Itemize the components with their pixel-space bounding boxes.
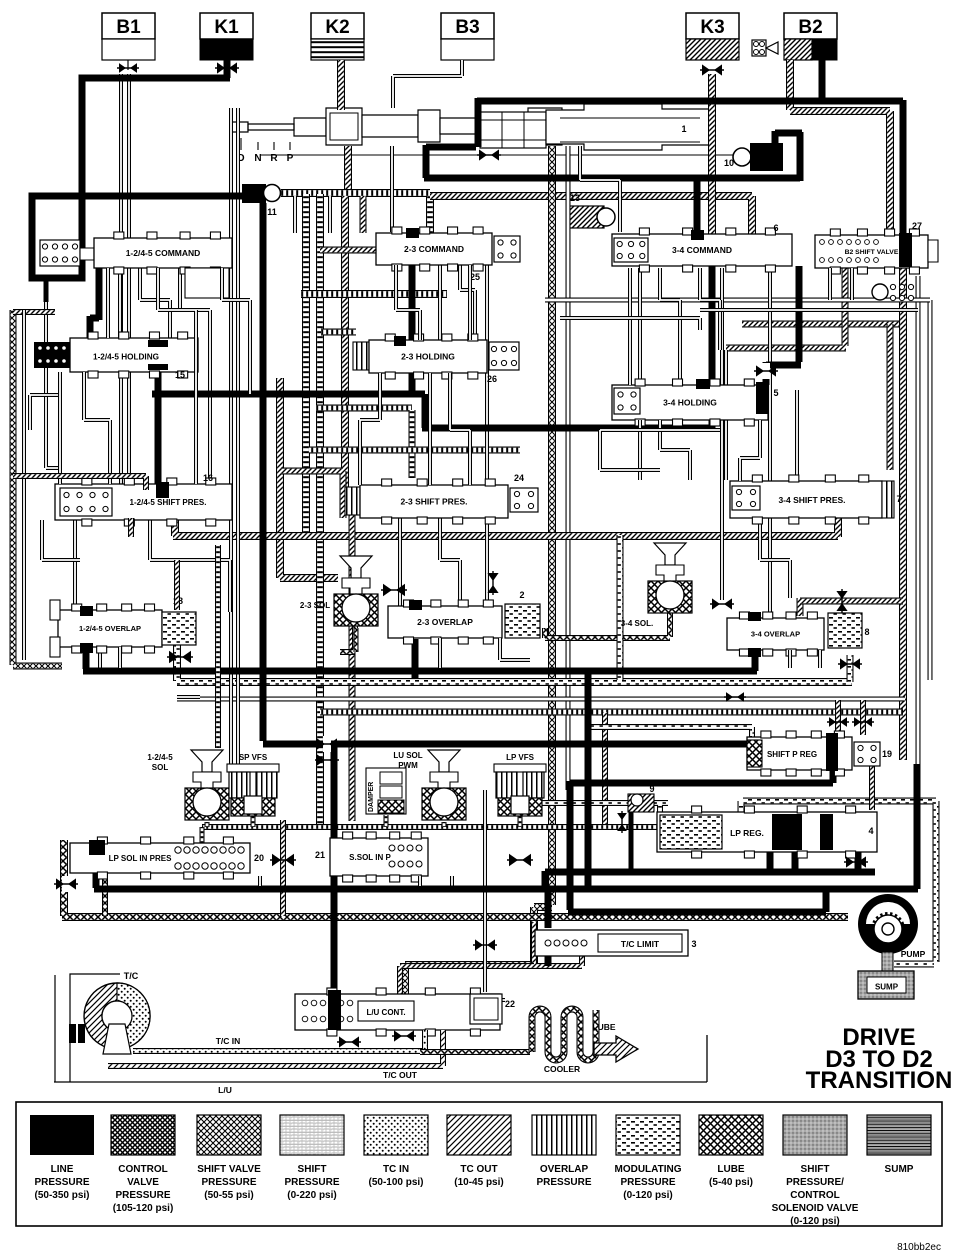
arrows above shift p reg [829,717,836,727]
S.SOL spring dots [389,845,395,851]
svg-text:2-3 OVERLAP: 2-3 OVERLAP [417,617,473,627]
wire central tall channel [405,146,552,995]
svg-text:K2: K2 [325,17,349,38]
valve 3-4 COMMAND dotbox [614,238,648,262]
svg-text:B1: B1 [116,17,141,38]
valve 1-2/4-5 OVERLAP mod box [162,612,196,645]
wire below shift pres drop [128,518,134,537]
wire B2 hatched drop channel [790,60,890,268]
wire stub below loop [44,278,49,302]
B2 check valve assembly [752,40,766,56]
wire right column hatch long [899,268,907,760]
svg-text:T/C LIMIT: T/C LIMIT [621,939,660,949]
valve 2-3 SHIFT PRES dotbox [510,488,538,512]
wire overlap right links [788,650,792,668]
torque converter T/C [84,983,150,1049]
wire top right main line [477,100,903,237]
T/C clutch plates [69,1024,76,1043]
svg-text:CONTROL: CONTROL [790,1190,839,1201]
wire row to component 13 channel [430,196,752,240]
svg-text:PUMP: PUMP [901,949,926,959]
wire manual valve to 2-3 command thin [390,146,394,232]
wire B2 shift bottom pair [828,268,832,300]
selector pointer line to junction 10 [260,154,733,156]
wire solenoid 2-3 drop [340,626,355,652]
manual selector valve stem [230,122,248,132]
svg-text:L/U: L/U [218,1085,232,1095]
valve 1-2/4-5 SHIFT PRES (16) [55,484,232,520]
valve 3-4 OVERLAP mod box [828,613,862,648]
wire long mid channel [173,516,838,537]
wire left thin loop [22,310,26,660]
wire K2 drop channel [337,60,345,110]
wire misc bottom links [418,876,422,886]
accumulator below B2 shift valve [872,284,888,300]
wire right shift pres loop [600,430,720,470]
svg-text:2-3 HOLDING: 2-3 HOLDING [401,352,455,362]
wire line pressure from K1 down [224,60,231,78]
arrow pair right of trunk [726,692,733,702]
svg-text:1-2/4-5 OVERLAP: 1-2/4-5 OVERLAP [79,624,141,633]
svg-text:2-3 SHIFT PRES.: 2-3 SHIFT PRES. [400,497,467,507]
svg-text:LUBE: LUBE [592,1022,615,1032]
legend swatch SHIFT [783,1115,847,1155]
svg-text:S.SOL IN P: S.SOL IN P [349,853,391,862]
arrow on lower left rail [62,876,70,892]
svg-text:1-2/4-5 COMMAND: 1-2/4-5 COMMAND [126,248,201,258]
wire holding-shiftpres mesh ladder 2 [309,447,520,454]
wire junction 9 drop [629,812,634,872]
legend swatch OVERLAP [532,1115,596,1155]
svg-text:LINE: LINE [51,1164,74,1175]
svg-text:PRESSURE: PRESSURE [620,1177,675,1188]
valve 2-3 HOLDING dotbox [489,342,519,370]
clutch restrictor arrows on bracket [479,149,487,160]
clutch box B2 [784,13,837,39]
wire left mesh link [30,395,60,430]
svg-text:6: 6 [773,223,778,233]
valve 1-2/4-5 HOLDING (15) [70,338,198,372]
svg-text:LP REG.: LP REG. [730,828,764,838]
svg-text:L/U CONT.: L/U CONT. [366,1008,405,1017]
svg-text:21: 21 [315,850,325,860]
valve 3-4 HOLDING (5) [612,385,768,420]
svg-text:13: 13 [570,193,580,203]
wire hatch col to solenoid rail [349,515,356,821]
clutch box K1 [200,13,253,39]
wire T/C limit feed [545,889,552,966]
svg-text:K3: K3 [700,17,724,38]
wire mesh between 2-3 rows [396,265,420,340]
svg-text:TC OUT: TC OUT [460,1164,497,1175]
svg-text:(0-120 psi): (0-120 psi) [790,1216,839,1227]
svg-text:(10-45 psi): (10-45 psi) [454,1177,503,1188]
wire solenoid rail drops [202,815,660,845]
svg-text:810bb2ec: 810bb2ec [897,1242,941,1253]
wire left tall bar [13,310,62,666]
valve 1-2/4-5 COMMAND (14) [94,238,232,268]
svg-text:PRESSURE: PRESSURE [284,1177,339,1188]
svg-text:PRESSURE: PRESSURE [34,1177,89,1188]
svg-text:SHIFT VALVE: SHIFT VALVE [197,1164,261,1175]
wire 3-4 command drop [709,262,716,430]
arrow right of 20 [272,854,281,867]
wire short hatch col [360,196,367,233]
wire thin long row [177,697,905,702]
wire modulating speckle column mid [617,535,624,680]
wire junction 11 row channel [281,189,430,197]
wire left nested passages [58,372,62,484]
wire LP SOL valve drop [102,873,108,916]
wire right thin column 1 [916,276,921,790]
wire 2-3 shift pres feed [341,196,349,488]
wire command valve to holding valve left [90,240,99,350]
svg-text:1-2/4-5 HOLDING: 1-2/4-5 HOLDING [93,353,159,362]
valve 3-4 COMMAND (6) [612,234,792,266]
clutch box B1 [102,13,155,39]
svg-text:OVERLAP: OVERLAP [540,1164,589,1175]
wire command-holding ladder row [301,290,447,298]
arrow on 3-4 overlap thin [712,598,720,609]
svg-text:1-2/4-5 SHIFT PRES.: 1-2/4-5 SHIFT PRES. [130,498,207,507]
wire left bar top link [13,309,55,315]
wire right mesh verticals [724,350,728,480]
legend swatch LINE [30,1115,94,1155]
wire 3-4 area hatch lower [726,260,846,348]
wire right short hatch [887,324,894,470]
legend swatch SHIFT [280,1115,344,1155]
svg-text:3-4 HOLDING: 3-4 HOLDING [663,398,717,408]
wire stub into 2-3 command [320,247,378,254]
svg-text:PRESSURE/: PRESSURE/ [786,1177,844,1188]
svg-text:TC IN: TC IN [383,1164,409,1175]
svg-text:LUBE: LUBE [717,1164,745,1175]
svg-text:8: 8 [864,627,869,637]
svg-text:(0-120 psi): (0-120 psi) [623,1190,672,1201]
wire shift p reg feeds [838,700,863,735]
arrow on modulating branch [840,658,848,669]
svg-text:COOLER: COOLER [544,1064,580,1074]
wire pump feed [568,671,833,912]
wire solenoid feed trunk [263,741,748,748]
wire T/C limit to cooler channel [400,966,534,1000]
svg-text:VALVE: VALVE [127,1177,159,1188]
wire clutch bracket left [424,98,800,178]
wire left mesh column B ladder [302,194,310,535]
valve 1-2/4-5 HOLDING end cap black [34,342,70,368]
clutch box B3 [441,13,494,39]
component 13 pilot valve [568,206,604,228]
manual selector valve body [326,108,362,145]
arrow on 3-4 overlap feed [836,591,847,599]
svg-text:7: 7 [896,494,901,504]
valve S.SOL IN P (21) [330,838,428,876]
wire modulating trunk [177,645,852,682]
valve L/U CONT (22) [295,994,500,1030]
wire junction 9 to LP REG [652,803,668,815]
legend swatch MODULATING [616,1115,680,1155]
wire 2-3 command drop through holding [409,233,416,395]
valve SHIFT P REG (19) [747,737,852,770]
svg-text:T/C: T/C [124,971,139,981]
solenoid 3-4 SOL [654,543,686,565]
wire overlap trunk [83,645,757,671]
svg-text:(5-40 psi): (5-40 psi) [709,1177,753,1188]
svg-text:B2: B2 [798,17,822,38]
legend swatch TC OUT [447,1115,511,1155]
svg-text:SOLENOID VALVE: SOLENOID VALVE [772,1203,859,1214]
svg-text:B2 SHIFT VALVE: B2 SHIFT VALVE [845,249,899,256]
arrow right of SP VFS [323,736,331,752]
wire 3-4 command feed from bracket [694,177,701,237]
wire line pressure K1 to left riser [82,78,230,193]
svg-text:5: 5 [773,388,778,398]
wire line pressure loop around command end cap [32,193,86,278]
svg-text:PRESSURE: PRESSURE [536,1177,591,1188]
svg-text:2: 2 [519,590,524,600]
svg-text:LP SOL IN PRES: LP SOL IN PRES [109,854,172,863]
clutch box K2 [311,13,364,39]
svg-text:2-3 COMMAND: 2-3 COMMAND [404,244,464,254]
svg-text:15: 15 [175,370,185,380]
detent positions D N R P [240,138,242,150]
valve 2-3 COMMAND (25) [376,233,492,265]
wire overlap row links [118,647,122,668]
legend swatch TC IN [364,1115,428,1155]
svg-text:3: 3 [691,939,696,949]
T/C LIMIT spring dots [545,940,551,946]
svg-text:22: 22 [505,999,515,1009]
solenoid 1-2/4-5 SOL [191,750,223,772]
valve 2-3 SHIFT PRES (24) [345,487,360,515]
B1 restrictor arrows [119,63,126,73]
svg-text:27: 27 [912,221,922,231]
wire left mesh column A [280,378,338,578]
wire extra mesh under cmd145 [106,268,110,338]
wire LP VFS to junction 9 [528,800,640,806]
wire ladder col to 1-2/4-5 SOL [215,545,221,748]
valve LP REG (4) [657,812,877,852]
wire pump to sump stem [882,952,893,972]
damper [366,768,406,814]
wire 3-4 command to overlap thins [720,268,724,600]
arrow on LU line [475,939,483,950]
wire modulating column down [602,712,608,828]
legend swatch LUBE [699,1115,763,1155]
svg-text:3-4 SOL.: 3-4 SOL. [621,619,653,628]
arrow v on 2-3 overlap feed [487,573,498,581]
wire cooler feed channel [420,1049,530,1055]
wire B1 to SP VFS thin pair [229,108,233,764]
arrow right of S.SOL [509,854,518,867]
wire 2-3 command to overlap thin [485,265,489,604]
wire right thin column 2 [928,300,933,680]
svg-text:4: 4 [868,826,873,836]
svg-text:(50-100 psi): (50-100 psi) [368,1177,423,1188]
legend box [16,1102,942,1226]
svg-text:3-4 SHIFT PRES.: 3-4 SHIFT PRES. [778,495,845,505]
legend swatch CONTROL [111,1115,175,1155]
wire extra mesh cmd145 right [222,268,250,394]
wire B3 drop [393,60,462,108]
svg-text:11: 11 [267,207,277,217]
pump [858,894,918,954]
svg-text:2-3 SOL: 2-3 SOL [300,601,330,610]
svg-text:PRESSURE: PRESSURE [201,1177,256,1188]
wire left edge nested [13,476,146,490]
svg-text:TRANSITION: TRANSITION [806,1067,953,1094]
wire sol valve feed thins [450,876,454,886]
valve 2-3 HOLDING (26) [353,342,369,370]
valve 2-3 OVERLAP mod box [505,604,540,638]
wire speckle row to shift p reg [588,727,752,737]
solenoid 2-3 SOL [340,556,372,578]
wire LP REG drops [770,815,858,872]
svg-text:10: 10 [724,158,734,168]
valve B2 SHIFT VALVE (27) [815,235,928,268]
wire ladder column to solenoid row [316,194,324,825]
svg-text:MODULATING: MODULATING [614,1164,681,1175]
wire junction 10 loop [775,131,802,181]
wire holding valve output to 3-4 riser [152,368,714,428]
arrow on 1-2/4-5 overlap out [169,651,178,664]
manual valve bore outline 1 [480,112,546,148]
svg-text:20: 20 [254,853,264,863]
sump [858,971,914,999]
wire T/C limit channel [534,922,582,966]
wire right bottom hatch column [280,820,286,916]
wire main drop from junction 11 [260,203,267,741]
wire 3-4 overlap top feed [797,598,804,616]
wire holding-shiftpres mesh ladder 1 [316,405,412,412]
valve 2-3 OVERLAP (2) [388,606,502,638]
wire shift p reg right drop [914,764,921,889]
wire L/U line [54,1035,707,1082]
svg-text:DAMPER: DAMPER [368,782,375,812]
K3 restrictor arrows [702,64,710,75]
arrow on solenoid feed trunk [317,754,325,765]
wire thin top right link [545,298,930,303]
solenoid SP VFS [227,764,279,772]
svg-text:SHIFT: SHIFT [801,1164,830,1175]
wire upper right manifold lines [580,146,620,232]
wire 3-4 overlap stub [752,648,759,671]
svg-text:SHIFT P REG: SHIFT P REG [767,750,817,759]
wire cmd23 down mesh [438,265,442,340]
svg-text:PRESSURE: PRESSURE [115,1190,170,1201]
svg-text:SOL: SOL [152,763,169,772]
wire overlap 18 link [174,560,180,610]
svg-text:3-4 COMMAND: 3-4 COMMAND [672,245,732,255]
solenoid LP VFS [494,764,546,772]
arrow at 3-4 holding feed [762,363,770,379]
wire mesh 2-3 to shift pres [360,373,380,485]
svg-text:(50-55 psi): (50-55 psi) [204,1190,253,1201]
svg-text:K1: K1 [214,17,239,38]
cooler coil [532,1009,596,1060]
junction 9 check valve [628,794,654,812]
wire T/C OUT channel [108,1030,443,1066]
wire col below 19 dotbox [869,766,875,810]
valve 1-2/4-5 COMMAND spool ext [185,268,229,298]
valve 3-4 SHIFT PRES (7) [730,481,882,518]
wire 2-3 holding cap ladder [321,329,356,336]
1-2/4-5 OVERLAP left caps [50,600,60,620]
wire manual valve to junction row channel [344,146,352,192]
valve SHIFT P REG dotbox [854,742,880,766]
svg-text:T/C OUT: T/C OUT [383,1070,418,1080]
svg-text:(105-120 psi): (105-120 psi) [113,1203,174,1214]
wire upper mid extra cols [293,196,297,233]
svg-text:SUMP: SUMP [885,1164,914,1175]
wire shift pres to overlap left mesh [73,520,77,610]
wire right mid thin rows [700,308,918,312]
wire holding-shiftpres hatch [281,471,343,518]
wire 3-4 shiftpres to overlap mesh [760,518,790,598]
T/C outline box [70,974,120,1082]
wire overlap-area long thin [177,695,200,699]
wire lower left rail [94,852,918,889]
svg-text:SUMP: SUMP [875,983,899,992]
valve B2 SHIFT dots [820,240,825,245]
wire solenoid supply ladder rail [202,824,660,830]
svg-text:LU SOL: LU SOL [393,751,422,760]
wire 2-3 overlap stub [412,639,419,678]
wire central thin pair [566,146,571,790]
svg-text:SP VFS: SP VFS [239,753,268,762]
wire modulating loop above LP REG [741,801,936,964]
wire L/U control drop [331,744,338,1025]
legend swatch SHIFT VALVE [197,1115,261,1155]
svg-text:9: 9 [649,784,654,794]
arrow on LP REG right [846,856,854,867]
wire lower mid rail [545,871,875,888]
svg-text:26: 26 [487,374,497,384]
wire LP VFS thin drop [483,790,487,992]
junction 11 block [242,184,266,203]
svg-text:(50-350 psi): (50-350 psi) [34,1190,89,1201]
lube arrow [594,1036,638,1062]
svg-text:CONTROL: CONTROL [118,1164,167,1175]
wire 3-4 area hatch upper [742,321,904,328]
svg-text:1: 1 [681,124,686,134]
valve LP SOL IN PRES (20) [70,843,250,873]
wire 3-4 holding right feed [766,266,801,385]
wire T/C IN channel [133,1030,425,1051]
solenoid LU SOL PWM [428,750,460,772]
svg-text:T/C IN: T/C IN [216,1036,241,1046]
svg-text:PWM: PWM [398,761,418,770]
valve 3-4 HOLDING dotbox [614,388,640,414]
wire mesh 3-4 holding to shift pres [638,420,642,480]
valve 3-4 OVERLAP (8) [727,618,824,650]
wire mesh 3-4 command down [628,268,632,385]
svg-text:16: 16 [203,473,213,483]
junction 22 spool [470,994,502,1024]
wire cmd34 down mesh [638,268,642,385]
svg-text:19: 19 [882,749,892,759]
svg-text:3-4 OVERLAP: 3-4 OVERLAP [751,630,800,639]
valve 2-3 COMMAND end dotbox [494,236,520,262]
wire modulating branch to 3-4 overlap box [847,655,854,682]
svg-text:1-2/4-5: 1-2/4-5 [147,753,173,762]
svg-text:(0-220 psi): (0-220 psi) [287,1190,336,1201]
LP SOL spring coils [175,847,181,853]
valve T/C LIMIT (3) [535,930,688,956]
wire loop stub thin extension [46,302,58,468]
arrow on 2-3 shiftpres mesh [383,584,392,597]
arrows under L/U cont [339,1036,347,1047]
